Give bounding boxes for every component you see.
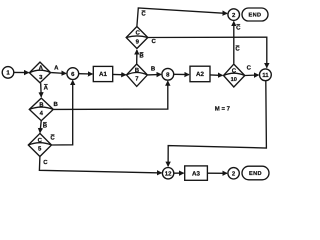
wire A1 to 7 (113, 73, 126, 75)
svg-text:A3: A3 (192, 170, 200, 177)
wire 5 to 12, branch C (39, 157, 161, 173)
svg-text:B: B (139, 53, 144, 60)
box A3 (185, 166, 208, 180)
svg-text:C: C (38, 137, 43, 144)
svg-text:C: C (236, 24, 241, 31)
wire 10 to 11, branch C (245, 74, 259, 77)
box A1 (93, 66, 112, 81)
node 12 (162, 168, 173, 179)
svg-text:A: A (44, 84, 49, 91)
svg-text:A: A (54, 64, 59, 71)
svg-text:C: C (247, 65, 252, 72)
node 9 decision C (126, 27, 148, 49)
wire 5 to 6, branch not-C (52, 81, 73, 146)
box A2 (190, 66, 210, 82)
label not-A on wire 3 to 4 (44, 84, 49, 91)
node 6 (67, 68, 79, 80)
svg-text:C: C (136, 30, 141, 37)
wire 9 to 11, branch C (148, 37, 267, 67)
END stadium top (242, 8, 268, 21)
label not-C lower on wire 10 to 2 (235, 46, 240, 53)
svg-text:11: 11 (262, 72, 269, 79)
svg-text:8: 8 (166, 72, 170, 79)
wire 8 to A2 (174, 73, 189, 75)
label not-B on wire 4 to 5 (43, 122, 48, 129)
wire A2 to 10 (210, 74, 223, 77)
svg-text:C: C (235, 46, 240, 53)
svg-text:C: C (50, 135, 55, 142)
node 4 decision B (29, 98, 53, 121)
node 8 (162, 68, 174, 80)
wire A3 to 2 bottom (207, 172, 227, 174)
node 3 decision A (29, 62, 50, 83)
node 5 decision C (28, 133, 51, 156)
wire 1 to 3 (14, 71, 29, 73)
wire 3 to 4, branch not-A (40, 83, 43, 97)
node 11 (260, 69, 272, 81)
svg-text:C: C (141, 11, 146, 18)
svg-text:9: 9 (136, 38, 140, 45)
svg-text:5: 5 (38, 145, 42, 152)
svg-text:END: END (249, 171, 262, 177)
svg-text:4: 4 (40, 110, 44, 117)
svg-text:A: A (39, 64, 44, 71)
svg-text:B: B (39, 102, 44, 109)
label not-C upper on wire 10 to 2 (236, 24, 241, 31)
wire 11 to 12 (168, 81, 266, 166)
wire 6 to A1 (79, 73, 93, 75)
svg-text:12: 12 (165, 170, 172, 177)
svg-text:B: B (135, 67, 140, 74)
wire 4 to 5, branch not-B (40, 121, 41, 133)
svg-text:C: C (152, 38, 157, 45)
wire 4 to 8, branch B (54, 81, 168, 109)
svg-text:END: END (248, 13, 261, 19)
wire 3 to 6, branch A (51, 72, 66, 75)
wire 7 to 9, branch not-B (136, 50, 138, 64)
label not-C on wire 9 to 2 (141, 11, 146, 18)
label not-C on wire 5 to 6 (50, 135, 55, 142)
wire 12 to A3 (174, 172, 184, 174)
svg-text:2: 2 (232, 12, 236, 19)
svg-text:C: C (232, 67, 237, 74)
svg-text:B: B (54, 101, 59, 108)
svg-text:B: B (151, 66, 156, 73)
node 10 decision C (224, 64, 245, 87)
wire 9 to 2, branch not-C (137, 8, 227, 26)
wire 7 to 8, branch B (148, 73, 161, 76)
END stadium bottom (242, 166, 269, 180)
wire 10 to 2, branch not-C (233, 22, 235, 64)
node 2 bottom (228, 168, 239, 179)
node 7 decision B (127, 64, 148, 86)
svg-text:10: 10 (231, 77, 237, 83)
svg-text:A2: A2 (196, 71, 204, 78)
svg-text:C: C (43, 159, 48, 166)
node 1 (2, 67, 14, 79)
svg-text:1: 1 (6, 70, 10, 77)
svg-text:B: B (43, 122, 48, 129)
node 2 top (228, 9, 240, 21)
svg-text:2: 2 (232, 171, 236, 178)
svg-text:M = 7: M = 7 (215, 106, 231, 113)
label not-B on wire 7 to 9 (139, 53, 144, 60)
svg-text:7: 7 (135, 75, 139, 82)
svg-text:A1: A1 (99, 71, 107, 78)
svg-text:6: 6 (71, 71, 75, 78)
